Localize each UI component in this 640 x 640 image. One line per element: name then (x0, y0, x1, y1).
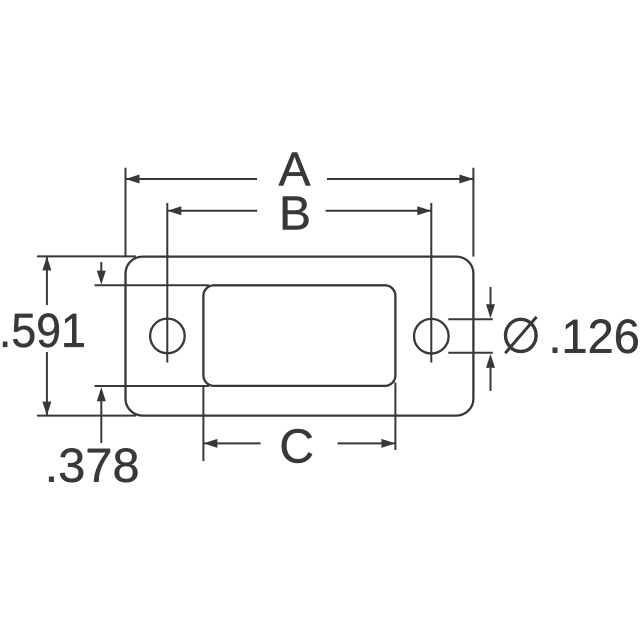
dia .126 bottom tangent line (448, 352, 493, 354)
dim A right arrowhead (459, 175, 473, 184)
dim .591 top arrowhead (42, 256, 51, 270)
dim .378 top arrowhead (97, 271, 106, 285)
dim B right arrowhead (417, 206, 431, 215)
dia .126 upper arrow shaft (490, 287, 492, 305)
label .126 (553, 319, 638, 353)
dim A line right segment (327, 178, 473, 180)
dia .126 top arrowhead (486, 304, 495, 318)
dim C right extension line (394, 383, 396, 451)
dim A left extension line (125, 168, 127, 257)
dim B right extension line (430, 203, 432, 363)
dim A line left segment (126, 178, 258, 180)
right mounting hole (414, 319, 449, 354)
dim B line left segment (167, 210, 257, 212)
dim A right extension line (472, 168, 474, 257)
dim .378 top extension line (95, 284, 210, 286)
dim C right arrowhead (381, 439, 395, 448)
dim A left arrowhead (126, 175, 140, 184)
label C (282, 429, 312, 463)
label .378 (49, 448, 137, 482)
dia .126 top tangent line (448, 318, 493, 320)
dim B left arrowhead (167, 206, 181, 215)
left mounting hole (150, 319, 185, 354)
dia .126 lower arrow shaft (490, 368, 492, 391)
dim C left arrowhead (203, 439, 217, 448)
dim B left extension line (166, 203, 168, 363)
outer plate outline (126, 257, 474, 416)
dim .591 upper shaft (46, 256, 48, 305)
dim C line right segment (338, 442, 396, 444)
dim B line right segment (326, 210, 432, 212)
label A (279, 153, 311, 186)
dim .591 bottom arrowhead (42, 402, 51, 416)
dim .378 bottom arrowhead (97, 387, 106, 401)
inner cutout opening (203, 285, 395, 386)
dim C left extension line (202, 386, 204, 461)
dim .591 bottom extension line (37, 415, 136, 417)
dim .378 upper arrow shaft (100, 262, 102, 271)
dim .591 lower shaft (46, 352, 48, 416)
label B (283, 197, 309, 230)
dim .378 bottom extension line (95, 385, 210, 387)
dim .591 top extension line (37, 255, 136, 257)
dim .378 lower arrow shaft (100, 401, 102, 443)
dim C line left segment (203, 442, 260, 444)
label .591 (3, 313, 84, 347)
diameter symbol (505, 317, 536, 353)
dia .126 bottom arrowhead (486, 354, 495, 368)
